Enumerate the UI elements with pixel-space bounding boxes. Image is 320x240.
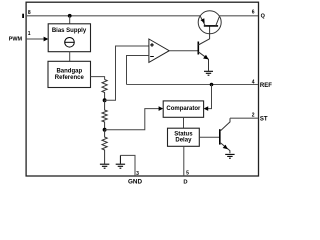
wire: PWM input with arrowhead into Bias Supply — [26, 38, 45, 40]
wire: Status Delay to Q3 base — [199, 136, 220, 138]
resistor R1 (top of divider) — [102, 80, 107, 101]
node: divider tap 1 — [103, 98, 107, 102]
ground: resistor divider return — [100, 164, 109, 168]
svg-text:Bandgap: Bandgap — [56, 69, 82, 75]
wire: Status Delay to pin D — [183, 146, 185, 176]
wire: Bandgap output to resistor divider — [91, 77, 105, 80]
svg-text:5: 5 — [186, 171, 189, 177]
svg-text:3: 3 — [136, 171, 139, 177]
transistor Q1 (NPN driver) — [198, 26, 209, 71]
block: Bias Supply — [48, 24, 90, 52]
wire: supply junction down to Bias Supply — [69, 16, 71, 24]
svg-text:4: 4 — [252, 80, 255, 86]
svg-text:GND: GND — [128, 178, 142, 184]
block: Bandgap Reference — [48, 61, 91, 87]
block: Status Delay — [168, 128, 200, 146]
svg-text:Status: Status — [174, 131, 193, 137]
wire: tap1 to op-amp + input — [105, 46, 149, 100]
svg-text:Reference: Reference — [55, 75, 85, 81]
op-amp error amplifier — [149, 39, 169, 62]
IC outline — [26, 2, 258, 176]
svg-text:D: D — [183, 179, 187, 184]
svg-text:Q: Q — [261, 13, 266, 19]
resistor R3 (bottom of divider) — [102, 130, 107, 164]
svg-text:2: 2 — [252, 113, 255, 119]
node: divider tap 2 — [103, 128, 107, 132]
node: supply junction above Bias Supply — [68, 14, 72, 18]
wire: supply rail from pin 8 to Q2 emitter — [26, 15, 200, 17]
wire: Q2 collector to pin Q — [219, 15, 258, 17]
wire: Q3 collector to pin ST — [230, 117, 258, 119]
resistor R2 (middle of divider) — [102, 100, 107, 130]
ground: Q3 emitter — [225, 154, 234, 158]
svg-text:1: 1 — [28, 31, 31, 37]
wire: GND pin to internal ground — [120, 155, 135, 176]
svg-text:6: 6 — [252, 10, 255, 16]
ground: Q1 emitter — [204, 71, 213, 75]
wire: REF junction down to comparator right input with arrowhead — [208, 85, 212, 109]
svg-text:Bias Supply: Bias Supply — [52, 28, 87, 34]
svg-text:PWM: PWM — [9, 37, 23, 43]
pin 8 terminal tick — [22, 14, 24, 18]
wire: op-amp inverting input feedback from REF line — [127, 56, 149, 85]
wire: op-amp output to Q1 base — [169, 50, 198, 52]
wire: Comparator output to Status Delay — [183, 117, 185, 128]
svg-text:8: 8 — [28, 10, 31, 16]
transistor Q3 (NPN status output) — [220, 118, 230, 153]
node: REF to comparator junction — [210, 83, 214, 87]
transistor Q2 (PNP output, circled) — [198, 11, 221, 34]
ground: internal ground symbol at GND pin — [116, 155, 125, 168]
svg-text:REF: REF — [260, 83, 272, 89]
svg-text:Comparator: Comparator — [166, 106, 201, 112]
wire: REF line — [127, 84, 259, 86]
wire: Bias Supply to Bandgap Reference — [69, 52, 71, 62]
block: Comparator — [163, 101, 203, 117]
svg-text:Delay: Delay — [175, 138, 192, 144]
svg-text:ST: ST — [260, 116, 268, 122]
wire: tap2 to Comparator input with arrowhead — [105, 109, 160, 130]
